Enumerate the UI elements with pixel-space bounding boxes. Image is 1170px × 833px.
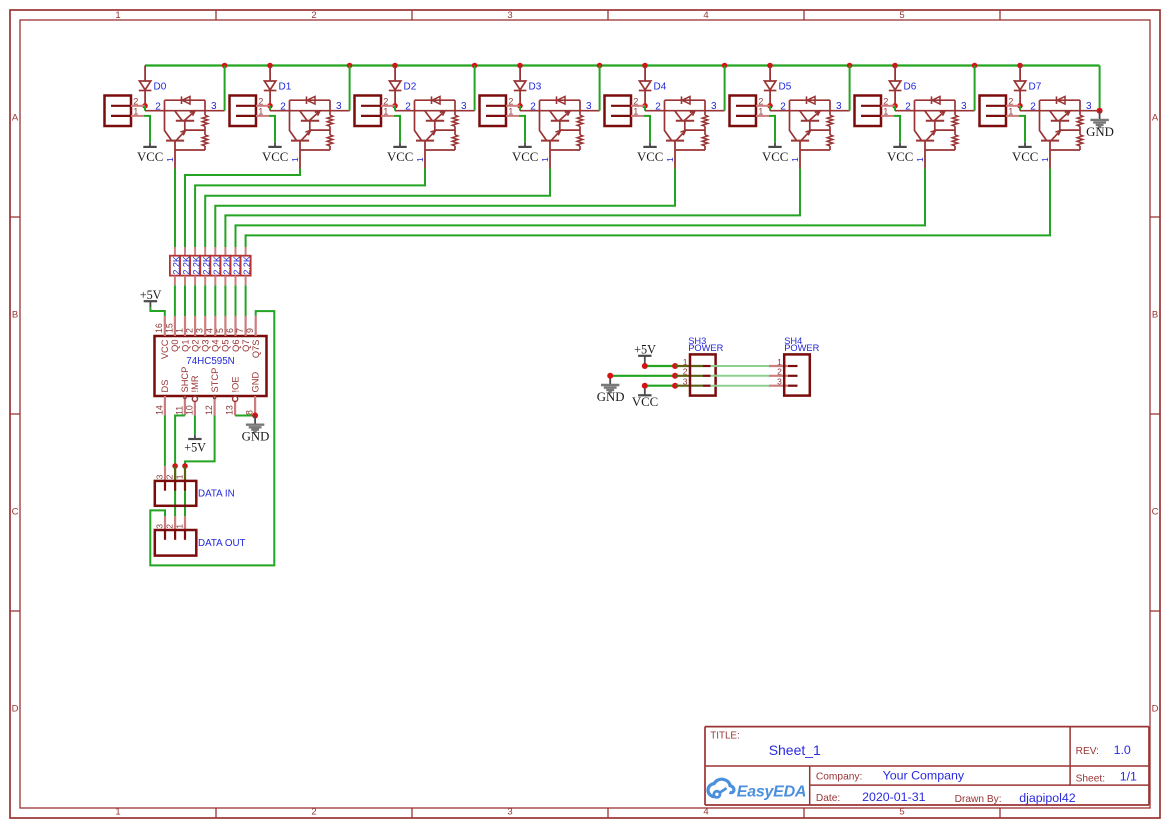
svg-text:VCC: VCC [387, 150, 413, 164]
wire (junction to transistor input) [144, 106, 146, 111]
node (diode D7 / connector pin 2 junction) [1017, 103, 1023, 109]
node (pin 8 / pin 13 junction) [252, 413, 258, 419]
svg-text:2: 2 [508, 97, 513, 107]
bus junction dots [222, 63, 1023, 69]
VCC power symbol [1012, 142, 1038, 164]
node (DATA IN pin 1) [182, 463, 188, 469]
wire (junction to transistor input) [769, 106, 771, 111]
wire (+5V to U1 pin 16) [150, 307, 164, 316]
svg-text:1: 1 [175, 474, 185, 479]
resistor R1 2.2K [170, 247, 182, 285]
wire (bus to diode D4) [644, 66, 646, 82]
wire (top VCC bus) [145, 64, 1100, 66]
wire (Q5 output to R6) [225, 169, 800, 248]
svg-text:VCC: VCC [637, 150, 663, 164]
node (+5V) [642, 363, 648, 369]
wire (junction to transistor input) [394, 106, 396, 111]
+5V power symbol (SH3 area) [634, 343, 656, 362]
svg-text:4: 4 [703, 10, 708, 21]
node (DATA IN pin 2) [172, 463, 178, 469]
svg-text:VCC: VCC [887, 150, 913, 164]
connector DATA IN (3-pin) [155, 466, 235, 506]
svg-text:B: B [12, 309, 18, 320]
wire (VCC to SH3 pin 3) [645, 385, 675, 387]
+5V power symbol (below U1 pin 10) [184, 435, 206, 455]
wire (bus to diode D3) [519, 66, 521, 82]
svg-text:1: 1 [133, 107, 138, 117]
EasyEDA logo [708, 779, 806, 800]
wire (pass-through to DATA OUT pin 1) [184, 466, 186, 516]
connector P7 (2-pin) [855, 96, 896, 127]
svg-text:Your Company: Your Company [883, 769, 965, 783]
node (diode D2 / connector pin 2 junction) [392, 103, 398, 109]
svg-text:REV:: REV: [1076, 746, 1099, 757]
wire (R5 to shift register pin) [214, 285, 216, 316]
resistor R2 2.2K [180, 247, 192, 285]
wire (bus to transistor pin 3) [724, 66, 726, 111]
VCC power symbol [387, 142, 413, 164]
svg-text:D: D [12, 703, 19, 714]
wire (U1 pin 12 STCP down) [185, 416, 215, 467]
ground symbol GND (below U1) [242, 416, 270, 444]
svg-text:7: 7 [235, 328, 245, 333]
wire (junction to transistor input) [519, 106, 521, 111]
svg-text:Q0: Q0 [170, 340, 180, 352]
svg-text:1: 1 [165, 157, 175, 162]
svg-text:VCC: VCC [762, 150, 788, 164]
diode D3 [514, 81, 542, 103]
svg-text:VCC: VCC [632, 395, 658, 409]
diode D1 [264, 81, 292, 103]
resistor R5 2.2K [210, 247, 222, 285]
svg-text:POWER: POWER [688, 343, 723, 353]
darlington transistor Q1 (with diode and resistors) [270, 96, 350, 168]
connector P4 (2-pin) [480, 96, 521, 127]
node (diode D4 / connector pin 2 junction) [642, 103, 648, 109]
svg-text:2: 2 [883, 97, 888, 107]
svg-text:D1: D1 [279, 82, 292, 93]
svg-text:2: 2 [311, 807, 316, 818]
svg-text:15: 15 [164, 323, 174, 333]
wire (R6 to shift register pin) [224, 285, 226, 316]
wire (bus to transistor pin 3) [349, 66, 351, 111]
darlington transistor Q7 (with diode and resistors) [1020, 96, 1100, 168]
svg-text:3: 3 [507, 10, 512, 21]
svg-text:3: 3 [711, 101, 717, 112]
svg-text:11: 11 [174, 406, 184, 415]
wire (connector pin 1 to VCC) [894, 116, 900, 142]
svg-text:2: 2 [133, 97, 138, 107]
svg-text:B: B [1152, 309, 1158, 320]
wire (bus to transistor pin 3) [599, 66, 601, 111]
wire (bus to transistor pin 3) [974, 66, 976, 111]
connector DATA OUT (3-pin) [155, 516, 246, 555]
darlington transistor Q3 (with diode and resistors) [520, 96, 600, 168]
svg-text:2: 2 [655, 101, 661, 112]
svg-text:VCC: VCC [1012, 150, 1038, 164]
wire (junction to transistor input) [644, 106, 646, 111]
wire (SH3 to SH4 links) [711, 366, 770, 386]
darlington transistor Q5 (with diode and resistors) [770, 96, 850, 168]
+5V power symbol (left of U1) [140, 288, 162, 307]
wire (junction to transistor input) [894, 106, 896, 111]
wire (junction to transistor input) [269, 106, 271, 111]
diode D4 [639, 81, 667, 103]
svg-text:Sheet:: Sheet: [1076, 773, 1105, 784]
resistor R6 2.2K [220, 247, 232, 285]
svg-text:1: 1 [508, 107, 513, 117]
svg-text:2: 2 [311, 10, 316, 21]
svg-text:4: 4 [205, 328, 215, 333]
wire (connector pin 1 to VCC) [1019, 116, 1025, 142]
svg-text:1: 1 [540, 157, 550, 162]
svg-text:D4: D4 [654, 82, 667, 93]
svg-text:Drawn By:: Drawn By: [955, 794, 1002, 805]
IC U1 74HC595N shift register [154, 316, 266, 416]
svg-text:1: 1 [665, 157, 675, 162]
svg-text:14: 14 [154, 405, 164, 415]
node (diode D3 / connector pin 2 junction) [517, 103, 523, 109]
svg-text:2: 2 [530, 101, 536, 112]
svg-text:A: A [12, 112, 19, 123]
wire (R2 to shift register pin) [184, 285, 186, 316]
svg-text:2: 2 [633, 97, 638, 107]
svg-text:GND: GND [597, 390, 625, 404]
wire (bus to transistor pin 3) [849, 66, 851, 111]
wire (bus to transistor pin 3) [224, 66, 226, 111]
wire (Q2 output to R3) [195, 169, 425, 248]
wire (bus to diode D2) [394, 66, 396, 82]
node (bus right end / GND) [1097, 108, 1103, 114]
connector P5 (2-pin) [605, 96, 646, 127]
svg-text:3: 3 [195, 328, 205, 333]
svg-text:1: 1 [383, 107, 388, 117]
resistor R7 2.2K [231, 247, 243, 285]
node (SH3 pin 3) [672, 383, 678, 389]
svg-text:VCC: VCC [512, 150, 538, 164]
svg-text:1: 1 [174, 328, 184, 333]
svg-text:A: A [1152, 112, 1159, 123]
svg-text:!MR: !MR [190, 375, 200, 392]
wire (connector pin 1 to VCC) [519, 116, 525, 142]
svg-text:1: 1 [915, 157, 925, 162]
svg-text:3: 3 [155, 474, 165, 479]
wire (U1 pin 10 MR to +5V) [194, 416, 196, 435]
svg-text:EasyEDA: EasyEDA [737, 783, 806, 800]
svg-text:1: 1 [115, 10, 120, 21]
svg-text:Q6: Q6 [231, 340, 241, 352]
svg-text:Q7S: Q7S [251, 340, 261, 359]
connector P6 (2-pin) [730, 96, 771, 127]
node (VCC) [642, 383, 648, 389]
wire (bus to diode D5) [769, 66, 771, 82]
svg-text:1: 1 [883, 107, 888, 117]
wire (connector pin 1 to VCC) [269, 116, 275, 142]
diode D2 [389, 81, 417, 103]
svg-text:3: 3 [336, 101, 342, 112]
svg-text:10: 10 [184, 405, 194, 415]
svg-text:1.0: 1.0 [1114, 743, 1131, 757]
connector P3 (2-pin) [355, 96, 396, 127]
wire (+5V to SH3 pin 1) [645, 365, 675, 367]
svg-text:16: 16 [154, 323, 164, 333]
wire (Q0 output to R1) [174, 169, 176, 248]
svg-text:1: 1 [683, 357, 688, 367]
svg-text:3: 3 [461, 101, 467, 112]
wire (U1 pin 9 Q7S to DATA OUT pin 3) [150, 311, 274, 565]
diode D0 [139, 81, 167, 103]
svg-text:1/1: 1/1 [1120, 770, 1137, 784]
svg-text:djapipol42: djapipol42 [1019, 791, 1076, 805]
wire (bus to diode D1) [269, 66, 271, 82]
title block [705, 727, 1149, 805]
svg-text:GND: GND [1086, 125, 1114, 139]
svg-text:2: 2 [280, 101, 286, 112]
connector P2 (2-pin) [230, 96, 271, 127]
wire (Q1 output to R2) [185, 169, 300, 248]
wire (pass-through to DATA OUT pin 2) [174, 466, 176, 516]
svg-text:VCC: VCC [160, 339, 170, 359]
VCC power symbol (SH3 area) [632, 386, 658, 409]
node (diode D1 / connector pin 2 junction) [267, 103, 273, 109]
svg-text:D7: D7 [1029, 82, 1042, 93]
node (diode D5 / connector pin 2 junction) [767, 103, 773, 109]
svg-text:Q1: Q1 [180, 340, 190, 352]
resistor R8 2.2K [241, 247, 253, 285]
svg-text:+5V: +5V [184, 441, 206, 455]
svg-text:1: 1 [290, 157, 300, 162]
svg-text:D: D [1152, 703, 1159, 714]
wire (R3 to shift register pin) [194, 285, 196, 316]
svg-text:1: 1 [633, 107, 638, 117]
svg-text:Sheet_1: Sheet_1 [769, 742, 821, 758]
svg-text:2: 2 [185, 328, 195, 333]
svg-text:D2: D2 [404, 82, 417, 93]
wire (bus to diode D0) [144, 66, 146, 82]
darlington transistor Q0 (with diode and resistors) [145, 96, 225, 168]
wire (bus to diode D6) [894, 66, 896, 82]
VCC power symbol [137, 142, 163, 164]
wire (U1 pin 14 DS to DATA IN pin 3) [164, 416, 166, 467]
ground symbol GND (SH3 area) [597, 376, 625, 404]
wire (Q6 output to R7) [236, 169, 926, 248]
wire (bus to transistor pin 3) [1099, 66, 1101, 111]
svg-text:4: 4 [703, 807, 708, 818]
svg-text:3: 3 [1086, 101, 1092, 112]
svg-text:3: 3 [836, 101, 842, 112]
connector SH4 POWER [769, 336, 820, 396]
svg-text:3: 3 [211, 101, 217, 112]
svg-text:2: 2 [905, 101, 911, 112]
svg-text:TITLE:: TITLE: [710, 731, 739, 742]
svg-text:!OE: !OE [230, 376, 240, 392]
diode D7 [1014, 81, 1042, 103]
svg-text:VCC: VCC [137, 150, 163, 164]
node (SH3 pin 2) [672, 373, 678, 379]
wire (Q3 output to R4) [205, 169, 550, 248]
svg-text:1: 1 [115, 807, 120, 818]
connector P1 (2-pin) [105, 96, 146, 127]
svg-text:3: 3 [155, 524, 165, 529]
svg-text:Q4: Q4 [211, 340, 221, 352]
svg-text:2: 2 [258, 97, 263, 107]
resistor R3 2.2K [190, 247, 202, 285]
svg-text:D0: D0 [154, 82, 167, 93]
svg-text:Q3: Q3 [201, 340, 211, 352]
svg-text:SHCP: SHCP [180, 367, 190, 393]
svg-text:+5V: +5V [634, 343, 656, 357]
svg-text:2: 2 [155, 101, 161, 112]
svg-text:1: 1 [777, 357, 782, 367]
svg-text:2: 2 [758, 97, 763, 107]
node (diode D0 / connector pin 2 junction) [142, 103, 148, 109]
wire (Q7 output to R8) [246, 169, 1050, 248]
wire (connector pin 1 to VCC) [394, 116, 400, 142]
wire (U1 pin 11 SHCP down) [175, 416, 185, 467]
svg-text:5: 5 [899, 807, 904, 818]
svg-text:2: 2 [780, 101, 786, 112]
wire (+5V stub) [644, 362, 646, 366]
VCC power symbol [887, 142, 913, 164]
wire (connector pin 1 to VCC) [644, 116, 650, 142]
svg-text:VCC: VCC [262, 150, 288, 164]
wire (U1 pin 13 OE to pin 8 GND) [235, 415, 255, 417]
svg-text:GND: GND [242, 430, 270, 444]
ground symbol GND (top right) [1086, 111, 1114, 139]
wire (bus to transistor pin 3) [474, 66, 476, 111]
connector P8 (2-pin) [980, 96, 1021, 127]
svg-text:D5: D5 [779, 82, 792, 93]
svg-text:GND: GND [250, 372, 260, 393]
darlington transistor Q6 (with diode and resistors) [895, 96, 975, 168]
svg-text:DS: DS [160, 380, 170, 393]
svg-text:2.2K: 2.2K [242, 256, 252, 275]
svg-text:74HC595N: 74HC595N [186, 356, 234, 367]
wire (R8 to shift register pin) [245, 285, 247, 316]
svg-text:Q7: Q7 [241, 340, 251, 352]
svg-text:2: 2 [405, 101, 411, 112]
svg-text:2: 2 [777, 367, 782, 377]
VCC power symbol [512, 142, 538, 164]
svg-text:2: 2 [165, 524, 175, 529]
wire (connector pin 1 to VCC) [144, 116, 150, 142]
wire (GND to SH3 pin 2) [610, 375, 675, 377]
svg-text:1: 1 [175, 524, 185, 529]
darlington transistor Q4 (with diode and resistors) [645, 96, 725, 168]
svg-text:DATA OUT: DATA OUT [198, 538, 246, 549]
VCC power symbol [262, 142, 288, 164]
svg-text:2: 2 [1030, 101, 1036, 112]
svg-text:3: 3 [961, 101, 967, 112]
diode D5 [764, 81, 792, 103]
svg-text:+5V: +5V [140, 288, 162, 302]
svg-text:3: 3 [586, 101, 592, 112]
svg-text:Q2: Q2 [190, 340, 200, 352]
svg-text:2: 2 [383, 97, 388, 107]
svg-text:3: 3 [507, 807, 512, 818]
svg-text:POWER: POWER [784, 343, 819, 353]
wire (R7 to shift register pin) [235, 285, 237, 316]
svg-text:C: C [12, 506, 19, 517]
VCC power symbol [637, 142, 663, 164]
svg-text:3: 3 [777, 377, 782, 387]
svg-text:2020-01-31: 2020-01-31 [862, 790, 925, 804]
svg-text:12: 12 [204, 405, 214, 415]
svg-text:1: 1 [415, 157, 425, 162]
wire (connector pin 1 to VCC) [769, 116, 775, 142]
svg-text:2: 2 [683, 367, 688, 377]
svg-text:9: 9 [245, 328, 255, 333]
wire (R4 to shift register pin) [204, 285, 206, 316]
svg-text:13: 13 [225, 405, 235, 415]
diode D6 [889, 81, 917, 103]
svg-text:5: 5 [215, 328, 225, 333]
svg-text:D3: D3 [529, 82, 542, 93]
VCC power symbol [762, 142, 788, 164]
svg-text:1: 1 [758, 107, 763, 117]
wire (Q4 output to R5) [215, 169, 675, 248]
wire (junction to transistor input) [1019, 106, 1021, 111]
svg-text:6: 6 [225, 328, 235, 333]
connector SH3 POWER [675, 336, 724, 396]
svg-text:Q5: Q5 [221, 340, 231, 352]
node (GND) [607, 373, 613, 379]
svg-text:1: 1 [258, 107, 263, 117]
svg-text:2: 2 [165, 474, 175, 479]
svg-text:Date:: Date: [816, 793, 840, 804]
svg-text:STCP: STCP [210, 368, 220, 393]
svg-text:1: 1 [1008, 107, 1013, 117]
svg-text:5: 5 [899, 10, 904, 21]
svg-text:2: 2 [1008, 97, 1013, 107]
svg-text:Company:: Company: [816, 771, 862, 782]
svg-text:3: 3 [683, 377, 688, 387]
svg-text:1: 1 [790, 157, 800, 162]
svg-text:1: 1 [1040, 157, 1050, 162]
darlington transistor Q2 (with diode and resistors) [395, 96, 475, 168]
svg-text:DATA IN: DATA IN [198, 489, 235, 500]
node (SH3 pin 1) [672, 363, 678, 369]
svg-text:C: C [1152, 506, 1159, 517]
wire (R1 to shift register pin) [174, 285, 176, 316]
resistor R4 2.2K [200, 247, 212, 285]
node (diode D6 / connector pin 2 junction) [892, 103, 898, 109]
wire (bus to diode D7) [1019, 66, 1021, 82]
svg-text:D6: D6 [904, 82, 917, 93]
